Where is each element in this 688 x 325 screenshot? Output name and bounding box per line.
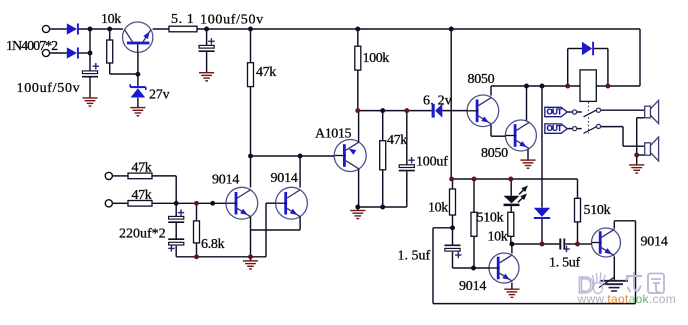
svg-text:OUT: OUT (547, 108, 563, 117)
svg-text:47k: 47k (256, 65, 276, 80)
svg-text:9014: 9014 (212, 173, 239, 188)
svg-text:5. 1: 5. 1 (171, 12, 194, 27)
svg-text:1. 5uf: 1. 5uf (398, 249, 431, 264)
svg-text:9014: 9014 (271, 171, 298, 186)
svg-text:47k: 47k (387, 133, 407, 148)
svg-text:6. 2v: 6. 2v (423, 94, 452, 109)
svg-text:10k: 10k (428, 201, 448, 216)
svg-text:8050: 8050 (468, 72, 495, 87)
svg-text:10k: 10k (101, 12, 121, 27)
svg-text:10k: 10k (488, 230, 508, 245)
svg-text:9014: 9014 (641, 235, 668, 250)
svg-text:100k: 100k (363, 51, 390, 66)
svg-text:100uf/50v: 100uf/50v (17, 81, 81, 96)
svg-text:100uf/50v: 100uf/50v (200, 13, 264, 28)
svg-text:47k: 47k (132, 188, 152, 203)
svg-text:A1015: A1015 (315, 127, 352, 142)
svg-text:510k: 510k (477, 211, 504, 226)
svg-text:220uf*2: 220uf*2 (119, 227, 166, 242)
svg-text:27v: 27v (149, 88, 170, 103)
svg-text:OUT: OUT (547, 124, 563, 133)
svg-text:100uf: 100uf (416, 155, 448, 170)
svg-text:47k: 47k (132, 161, 152, 176)
svg-text:6.8k: 6.8k (201, 237, 225, 252)
svg-text:9014: 9014 (459, 279, 486, 294)
svg-text:1N4007*2: 1N4007*2 (6, 39, 58, 54)
svg-text:1. 5uf: 1. 5uf (549, 256, 581, 271)
svg-text:510k: 510k (584, 203, 611, 218)
svg-text:www.taotaok.com: www.taotaok.com (577, 292, 677, 306)
svg-text:8050: 8050 (481, 146, 508, 161)
